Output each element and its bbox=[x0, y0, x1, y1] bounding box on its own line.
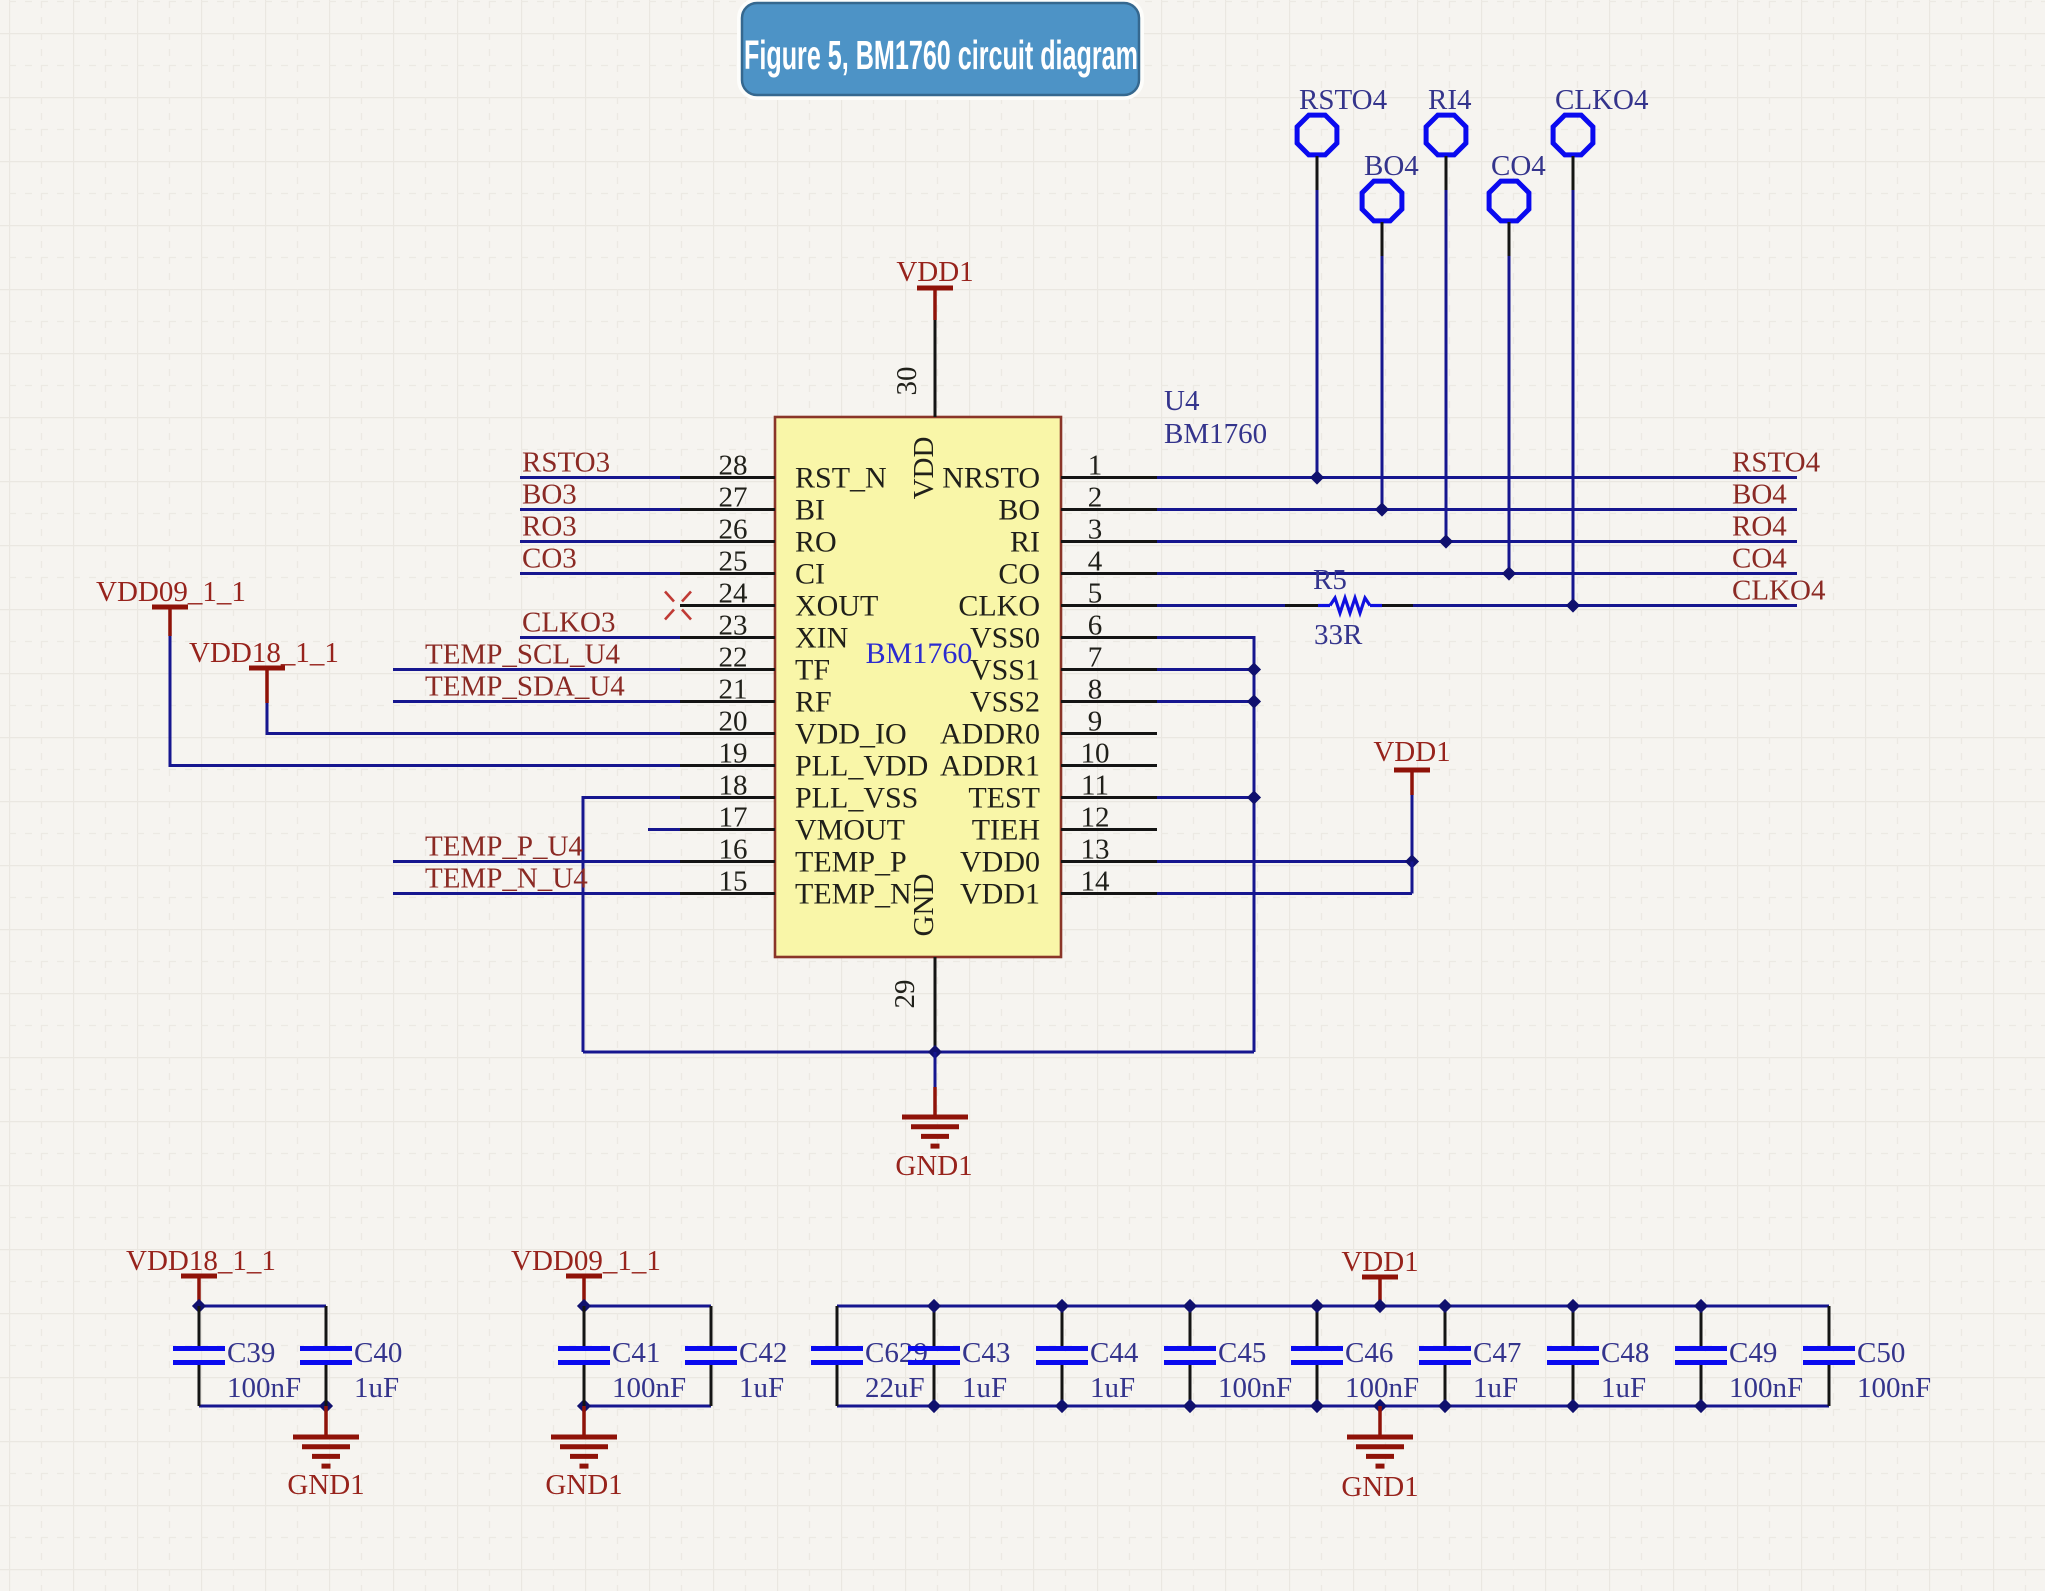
pin 11 stub bbox=[1061, 796, 1157, 799]
svg-text:VDD1: VDD1 bbox=[960, 878, 1040, 911]
pin 3 stub bbox=[1061, 540, 1157, 543]
svg-text:4: 4 bbox=[1088, 546, 1103, 578]
capacitor C40 1uF bbox=[325, 1306, 328, 1346]
svg-text:VSS1: VSS1 bbox=[970, 654, 1040, 687]
svg-text:RSTO3: RSTO3 bbox=[522, 447, 610, 479]
ground GND1 (below C41) bbox=[582, 1406, 586, 1437]
wire VSS1 pin7 bbox=[1157, 668, 1254, 671]
svg-text:29: 29 bbox=[889, 980, 921, 1009]
svg-text:C39: C39 bbox=[227, 1337, 275, 1369]
svg-text:BO3: BO3 bbox=[522, 479, 577, 511]
wire VMOUT pin17 stub bbox=[648, 828, 680, 831]
svg-text:C43: C43 bbox=[962, 1337, 1010, 1369]
svg-text:25: 25 bbox=[719, 546, 748, 578]
wire pin2 to BO4 bbox=[1157, 508, 1797, 511]
svg-text:1uF: 1uF bbox=[739, 1372, 784, 1404]
pin 9 stub bbox=[1061, 732, 1157, 735]
svg-text:18: 18 bbox=[719, 770, 748, 802]
wire ground bus (bottom loop) bbox=[583, 1051, 1254, 1054]
svg-text:BM1760: BM1760 bbox=[1164, 418, 1267, 450]
svg-text:XOUT: XOUT bbox=[795, 590, 878, 623]
pin 1 stub bbox=[1061, 476, 1157, 479]
svg-text:C41: C41 bbox=[612, 1337, 660, 1369]
pin 7 stub bbox=[1061, 668, 1157, 671]
svg-text:VDD: VDD bbox=[908, 437, 940, 500]
svg-text:26: 26 bbox=[719, 514, 748, 546]
svg-text:PLL_VSS: PLL_VSS bbox=[795, 782, 918, 815]
wire TEST pin11 bbox=[1157, 796, 1254, 799]
svg-text:C45: C45 bbox=[1218, 1337, 1266, 1369]
svg-text:33R: 33R bbox=[1314, 619, 1363, 651]
svg-text:6: 6 bbox=[1088, 610, 1103, 642]
connector pad RI4 bbox=[1426, 115, 1466, 155]
pin 6 stub bbox=[1061, 636, 1157, 639]
pin 2 stub bbox=[1061, 508, 1157, 511]
wire rails C39-C40 bbox=[199, 1305, 326, 1308]
pin 21 stub bbox=[680, 700, 775, 703]
svg-text:1uF: 1uF bbox=[1473, 1372, 1518, 1404]
svg-text:5: 5 bbox=[1088, 578, 1103, 610]
svg-text:3: 3 bbox=[1088, 514, 1103, 546]
svg-text:RO4: RO4 bbox=[1732, 511, 1787, 543]
capacitor C45 100nF bbox=[1189, 1306, 1192, 1346]
capacitor C41 100nF bbox=[583, 1306, 586, 1346]
pin 28 stub bbox=[680, 476, 775, 479]
capacitor C48 1uF bbox=[1572, 1306, 1575, 1346]
svg-text:TF: TF bbox=[795, 654, 830, 687]
pin 25 stub bbox=[680, 572, 775, 575]
svg-text:CO: CO bbox=[998, 558, 1040, 591]
svg-text:RSTO4: RSTO4 bbox=[1732, 447, 1821, 479]
capacitor C46 100nF bbox=[1316, 1306, 1319, 1346]
wire TEMP_N_U4 to pin15 bbox=[393, 892, 680, 895]
svg-text:R5: R5 bbox=[1313, 564, 1347, 596]
svg-text:VDD0: VDD0 bbox=[960, 846, 1040, 879]
svg-text:12: 12 bbox=[1081, 802, 1110, 834]
junction CO4 bbox=[1502, 566, 1516, 580]
wire VDD1 bank top rail bbox=[837, 1305, 1829, 1308]
svg-text:CLKO4: CLKO4 bbox=[1732, 575, 1826, 607]
pin 14 stub bbox=[1061, 892, 1157, 895]
svg-text:100nF: 100nF bbox=[1857, 1372, 1931, 1404]
svg-text:CI: CI bbox=[795, 558, 825, 591]
svg-text:1uF: 1uF bbox=[354, 1372, 399, 1404]
junction RSTO4 bbox=[1310, 470, 1324, 484]
wire RI4 down to pin row bbox=[1445, 156, 1448, 190]
svg-text:CLKO3: CLKO3 bbox=[522, 607, 615, 639]
svg-text:TEMP_N_U4: TEMP_N_U4 bbox=[425, 863, 588, 895]
wire BO4 down to pin row bbox=[1381, 222, 1384, 256]
pin 8 stub bbox=[1061, 700, 1157, 703]
wire pin1 to RSTO4 bbox=[1157, 476, 1797, 479]
wire VDD09_1_1 to pin19 bbox=[169, 636, 172, 767]
svg-text:BO4: BO4 bbox=[1732, 479, 1787, 511]
svg-text:100nF: 100nF bbox=[227, 1372, 301, 1404]
svg-text:11: 11 bbox=[1081, 770, 1109, 802]
wire CO4 down to pin row bbox=[1508, 222, 1511, 256]
svg-text:CLKO: CLKO bbox=[958, 590, 1040, 623]
pin 18 stub bbox=[680, 796, 775, 799]
pin 15 stub bbox=[680, 892, 775, 895]
pin 22 stub bbox=[680, 668, 775, 671]
svg-text:C42: C42 bbox=[739, 1337, 787, 1369]
wire TEMP_P_U4 to pin16 bbox=[393, 860, 680, 863]
svg-text:100nF: 100nF bbox=[612, 1372, 686, 1404]
svg-text:RO3: RO3 bbox=[522, 511, 577, 543]
svg-text:16: 16 bbox=[719, 834, 748, 866]
svg-text:24: 24 bbox=[719, 578, 749, 610]
svg-text:BO: BO bbox=[998, 494, 1040, 527]
svg-text:17: 17 bbox=[719, 802, 748, 834]
wire VDD1 pin14 bbox=[1157, 892, 1412, 895]
svg-text:XIN: XIN bbox=[795, 622, 848, 655]
svg-text:BO4: BO4 bbox=[1364, 150, 1419, 182]
svg-text:GND1: GND1 bbox=[895, 1150, 972, 1182]
wire VSS0 pin6 bbox=[1157, 636, 1254, 639]
svg-text:TEST: TEST bbox=[968, 782, 1040, 815]
pin 12 stub bbox=[1061, 828, 1157, 831]
capacitor C42 1uF bbox=[710, 1306, 713, 1346]
no-connect X on pin 24 bbox=[665, 592, 674, 602]
wire pin4 to CO4 bbox=[1157, 572, 1797, 575]
svg-text:21: 21 bbox=[719, 674, 748, 706]
wire pin3 to RO4 bbox=[1157, 540, 1797, 543]
svg-text:VDD18_1_1: VDD18_1_1 bbox=[189, 637, 339, 669]
svg-text:VMOUT: VMOUT bbox=[795, 814, 905, 847]
svg-text:RSTO4: RSTO4 bbox=[1299, 84, 1388, 116]
svg-text:VDD1: VDD1 bbox=[1373, 736, 1450, 768]
wire PLL_VSS pin18 down-loop bbox=[583, 796, 680, 799]
wire R5 to CLKO4 bbox=[1382, 604, 1413, 607]
svg-text:10: 10 bbox=[1081, 738, 1110, 770]
pin 10 stub bbox=[1061, 764, 1157, 767]
svg-text:1: 1 bbox=[1088, 450, 1103, 482]
wire TEMP_SCL_U4 to pin22 bbox=[393, 668, 680, 671]
capacitor C50 100nF bbox=[1828, 1306, 1831, 1346]
svg-text:C49: C49 bbox=[1729, 1337, 1777, 1369]
svg-text:RF: RF bbox=[795, 686, 832, 719]
svg-text:TEMP_P: TEMP_P bbox=[795, 846, 907, 879]
junction CLKO4 bbox=[1566, 598, 1580, 612]
wire rails C41-C42 bbox=[584, 1305, 711, 1308]
wire bank bottom rail bbox=[837, 1405, 1829, 1408]
junction BO4 bbox=[1375, 502, 1389, 516]
svg-text:14: 14 bbox=[1081, 866, 1111, 898]
svg-text:PLL_VDD: PLL_VDD bbox=[795, 750, 928, 783]
svg-text:CO3: CO3 bbox=[522, 543, 577, 575]
svg-text:C46: C46 bbox=[1345, 1337, 1393, 1369]
svg-text:22: 22 bbox=[719, 642, 748, 674]
svg-text:1uF: 1uF bbox=[1601, 1372, 1646, 1404]
pin 4 stub bbox=[1061, 572, 1157, 575]
wire pin5 CLKO to resistor R5 bbox=[1157, 604, 1285, 607]
svg-text:13: 13 bbox=[1081, 834, 1110, 866]
pin 26 stub bbox=[680, 540, 775, 543]
pin 24 stub bbox=[680, 604, 775, 607]
svg-text:ADDR0: ADDR0 bbox=[940, 718, 1040, 751]
svg-text:TEMP_SDA_U4: TEMP_SDA_U4 bbox=[425, 671, 625, 703]
svg-text:TEMP_N: TEMP_N bbox=[795, 878, 912, 911]
pin 17 stub bbox=[680, 828, 775, 831]
connector pad CLKO4 bbox=[1553, 115, 1593, 155]
svg-text:ADDR1: ADDR1 bbox=[940, 750, 1040, 783]
connector pad RSTO4 bbox=[1297, 115, 1337, 155]
ground GND1 (bank) bbox=[1373, 1399, 1387, 1413]
svg-text:BI: BI bbox=[795, 494, 825, 527]
svg-text:TEMP_P_U4: TEMP_P_U4 bbox=[425, 831, 583, 863]
capacitor C39 100nF bbox=[198, 1306, 201, 1346]
svg-text:NRSTO: NRSTO bbox=[942, 462, 1040, 495]
svg-text:VDD18_1_1: VDD18_1_1 bbox=[126, 1245, 276, 1277]
pin 19 stub bbox=[680, 764, 775, 767]
svg-text:C48: C48 bbox=[1601, 1337, 1649, 1369]
capacitor C49 100nF bbox=[1700, 1306, 1703, 1346]
svg-text:30: 30 bbox=[891, 367, 923, 396]
svg-text:C40: C40 bbox=[354, 1337, 402, 1369]
IC U4 BM1760 body bbox=[775, 417, 1061, 957]
wire CO3 to pin25 bbox=[520, 572, 680, 575]
svg-text:Figure 5, BM1760 circuit diagr: Figure 5, BM1760 circuit diagram bbox=[744, 32, 1138, 78]
junction RI4 bbox=[1439, 534, 1453, 548]
capacitor C629 22uF bbox=[836, 1306, 839, 1346]
svg-text:CLKO4: CLKO4 bbox=[1555, 84, 1649, 116]
svg-text:VSS2: VSS2 bbox=[970, 686, 1040, 719]
svg-text:100nF: 100nF bbox=[1729, 1372, 1803, 1404]
svg-text:C50: C50 bbox=[1857, 1337, 1905, 1369]
svg-text:CO4: CO4 bbox=[1491, 150, 1546, 182]
svg-text:1uF: 1uF bbox=[962, 1372, 1007, 1404]
svg-text:27: 27 bbox=[719, 482, 748, 514]
svg-text:RI: RI bbox=[1010, 526, 1040, 559]
pin 16 stub bbox=[680, 860, 775, 863]
capacitor C47 1uF bbox=[1444, 1306, 1447, 1346]
svg-text:RO: RO bbox=[795, 526, 837, 559]
wire TEMP_SDA_U4 to pin21 bbox=[393, 700, 680, 703]
capacitor C44 1uF bbox=[1061, 1306, 1064, 1346]
pin 30 stub bbox=[934, 320, 937, 417]
wire RSTO3 to pin28 bbox=[520, 476, 680, 479]
svg-text:VDD1: VDD1 bbox=[896, 256, 973, 288]
svg-text:20: 20 bbox=[719, 706, 748, 738]
svg-text:U4: U4 bbox=[1164, 385, 1200, 417]
svg-text:GND1: GND1 bbox=[545, 1469, 622, 1501]
svg-text:RST_N: RST_N bbox=[795, 462, 887, 495]
pin 27 stub bbox=[680, 508, 775, 511]
svg-text:GND1: GND1 bbox=[1341, 1471, 1418, 1503]
svg-text:RI4: RI4 bbox=[1428, 84, 1472, 116]
wire RO3 to pin26 bbox=[520, 540, 680, 543]
svg-text:7: 7 bbox=[1088, 642, 1103, 674]
wire VDD18_1_1 to pin20 bbox=[266, 703, 269, 735]
wire CLKO4 down to pin row bbox=[1572, 156, 1575, 190]
svg-text:VDD09_1_1: VDD09_1_1 bbox=[96, 576, 246, 608]
svg-text:VDD09_1_1: VDD09_1_1 bbox=[511, 1245, 661, 1277]
svg-text:C47: C47 bbox=[1473, 1337, 1521, 1369]
svg-text:C44: C44 bbox=[1090, 1337, 1139, 1369]
ground symbol GND1 (centre) bbox=[902, 1115, 968, 1120]
pin 13 stub bbox=[1061, 860, 1157, 863]
svg-text:VDD_IO: VDD_IO bbox=[795, 718, 907, 751]
svg-text:28: 28 bbox=[719, 450, 748, 482]
pin 23 stub bbox=[680, 636, 775, 639]
title box bbox=[740, 1, 1141, 97]
svg-text:1uF: 1uF bbox=[1090, 1372, 1135, 1404]
svg-text:TEMP_SCL_U4: TEMP_SCL_U4 bbox=[425, 639, 620, 671]
svg-text:TIEH: TIEH bbox=[972, 814, 1040, 847]
wire CLKO3 to pin23 bbox=[520, 636, 680, 639]
connector pad CO4 bbox=[1489, 181, 1529, 221]
pin 29 stub bbox=[934, 957, 937, 1052]
wire BO3 to pin27 bbox=[520, 508, 680, 511]
svg-text:BM1760: BM1760 bbox=[866, 637, 973, 670]
ground GND1 (below C40) bbox=[324, 1406, 328, 1437]
svg-text:22uF: 22uF bbox=[865, 1372, 925, 1404]
svg-text:GND: GND bbox=[908, 874, 940, 937]
pin 20 stub bbox=[680, 732, 775, 735]
junction at pin29/GND bbox=[928, 1045, 942, 1059]
svg-text:100nF: 100nF bbox=[1345, 1372, 1419, 1404]
svg-text:19: 19 bbox=[719, 738, 748, 770]
svg-text:9: 9 bbox=[1088, 706, 1103, 738]
wire VDD0 pin13 bbox=[1157, 860, 1412, 863]
svg-text:8: 8 bbox=[1088, 674, 1103, 706]
resistor R5 33R bbox=[1318, 604, 1330, 607]
wire RSTO4 down to pin row bbox=[1316, 156, 1319, 190]
svg-text:GND1: GND1 bbox=[287, 1469, 364, 1501]
pin 5 stub bbox=[1061, 604, 1157, 607]
svg-text:VSS0: VSS0 bbox=[970, 622, 1040, 655]
wire pin29 to GND1 bbox=[934, 1052, 937, 1087]
svg-text:23: 23 bbox=[719, 610, 748, 642]
capacitor C43 1uF bbox=[933, 1306, 936, 1346]
svg-text:2: 2 bbox=[1088, 482, 1103, 514]
connector pad BO4 bbox=[1362, 181, 1402, 221]
svg-text:15: 15 bbox=[719, 866, 748, 898]
svg-text:CO4: CO4 bbox=[1732, 543, 1787, 575]
svg-text:VDD1: VDD1 bbox=[1341, 1246, 1418, 1278]
wire VSS2 pin8 bbox=[1157, 700, 1254, 703]
svg-text:100nF: 100nF bbox=[1218, 1372, 1292, 1404]
